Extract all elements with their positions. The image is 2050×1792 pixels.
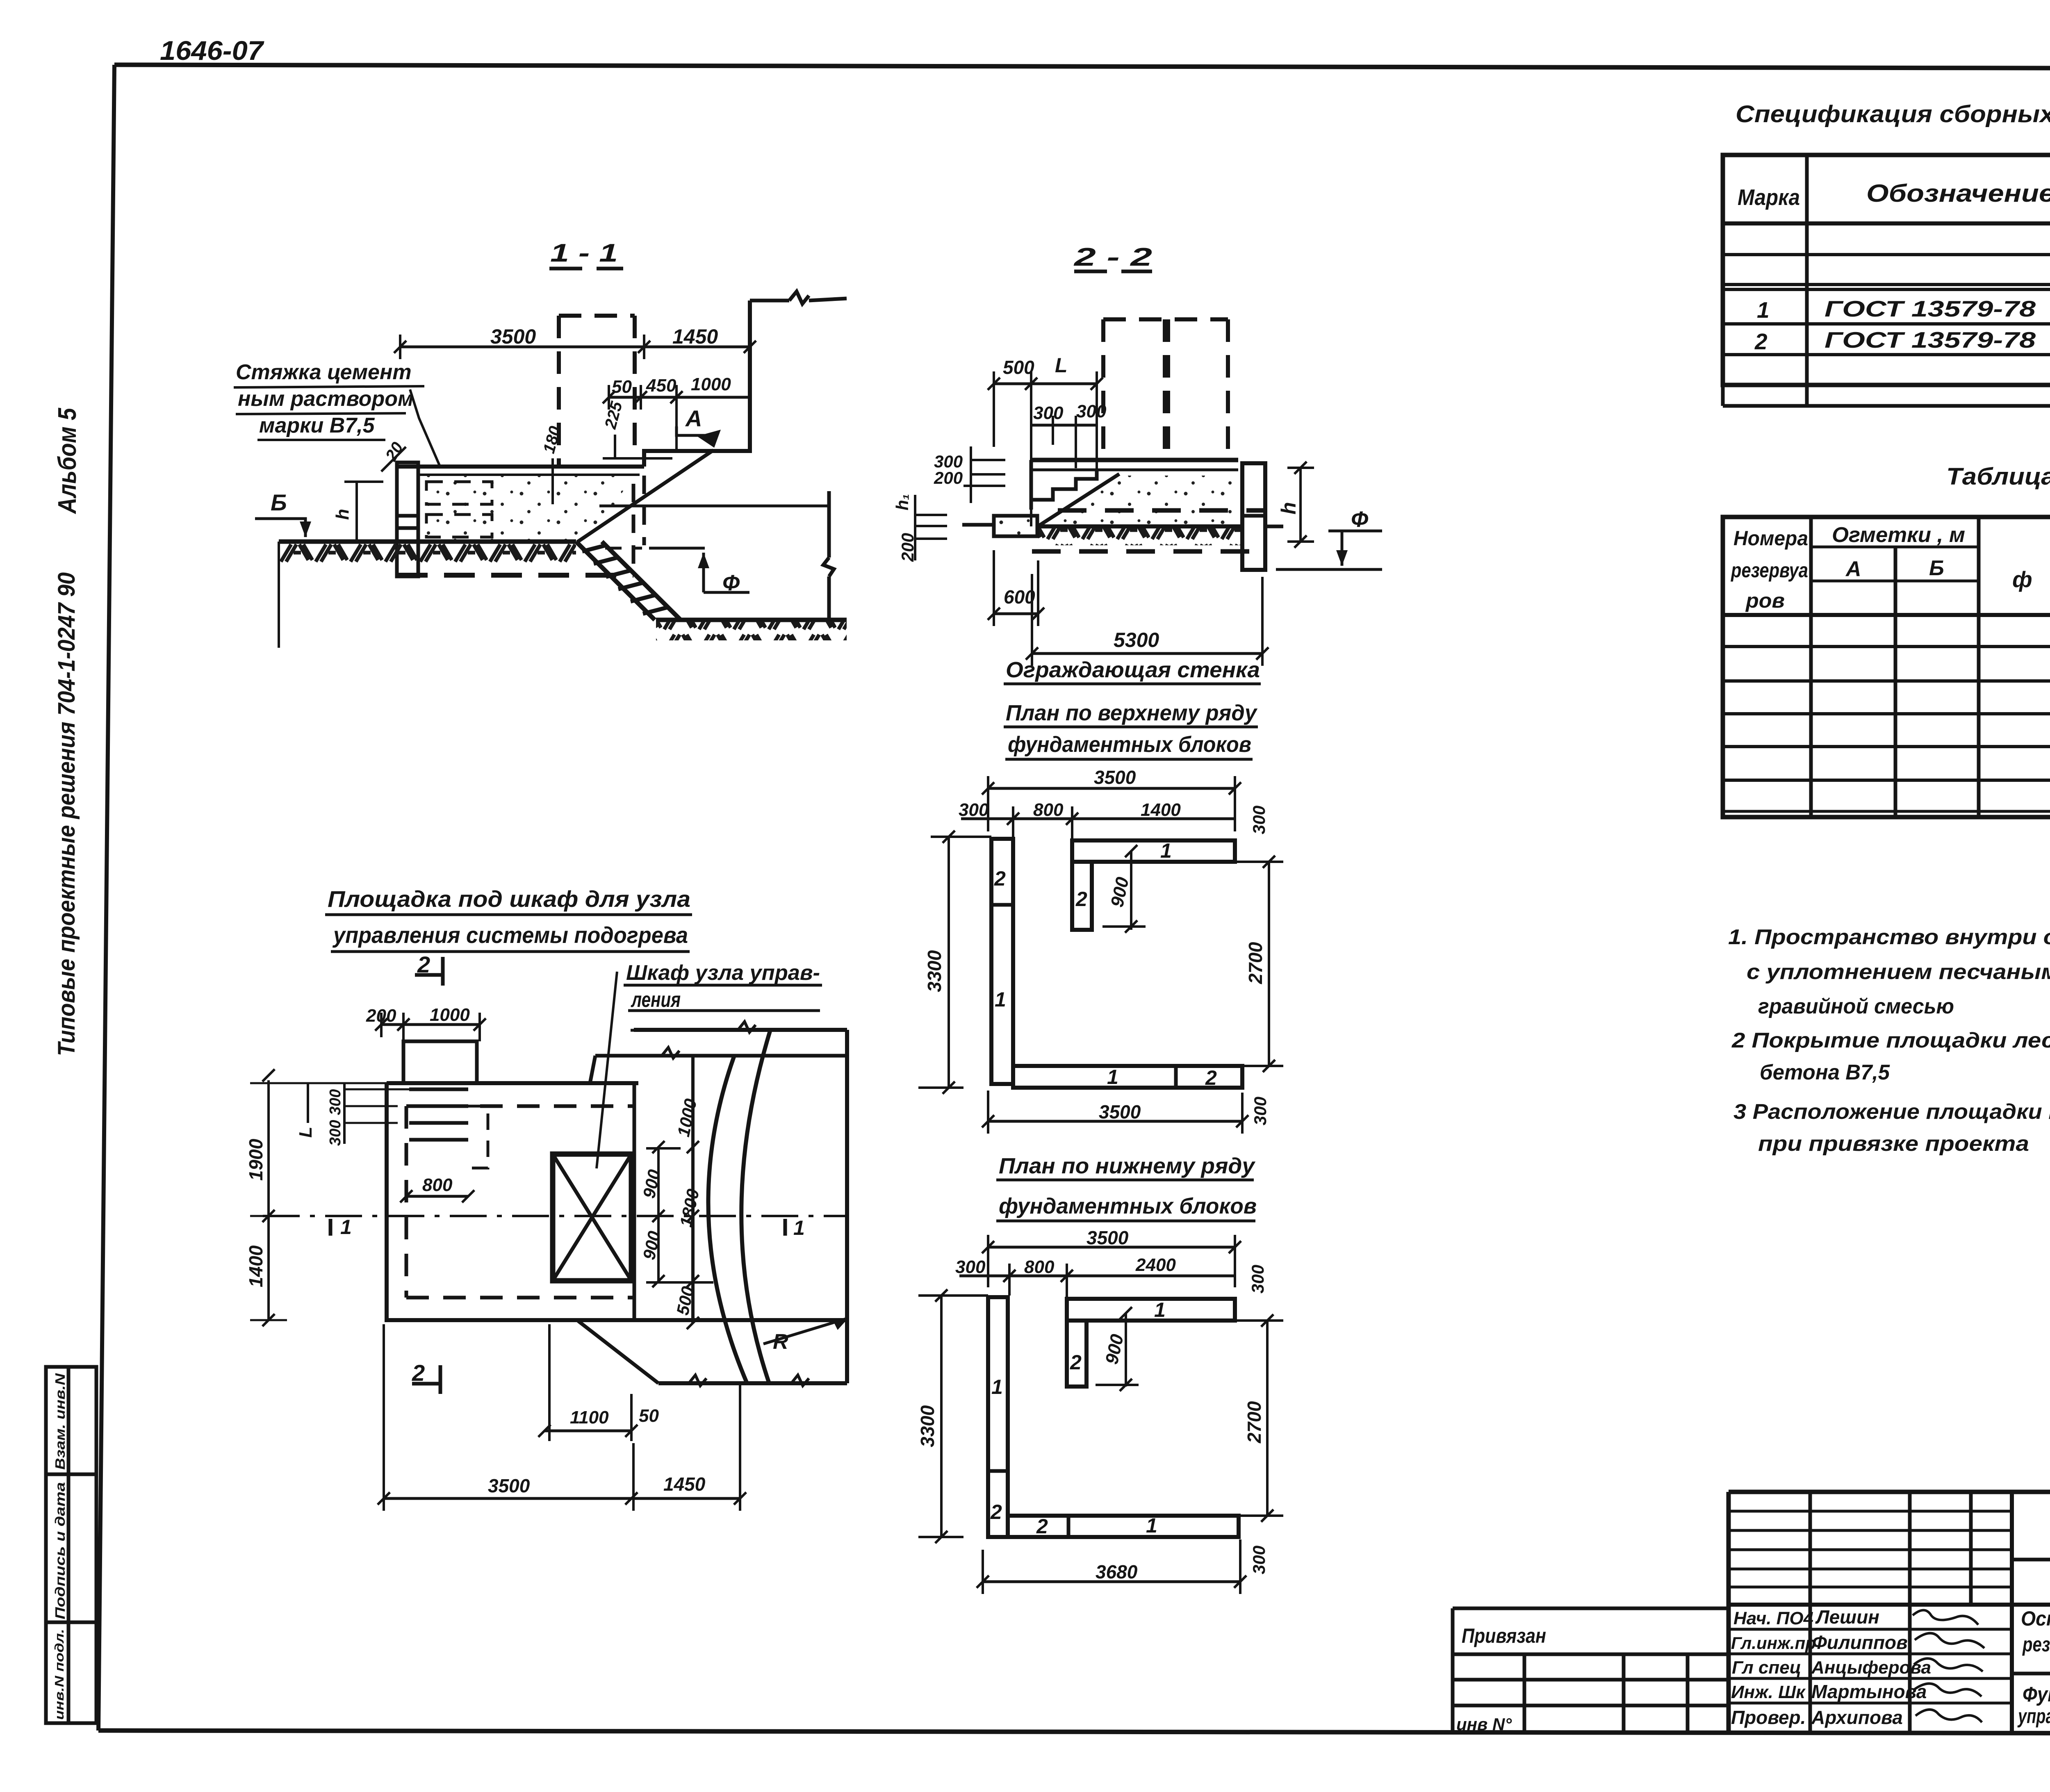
svg-text:1: 1 [1757, 297, 1770, 323]
s22 h dim right [1299, 468, 1302, 542]
svg-text:300: 300 [1033, 403, 1064, 423]
svg-text:Фундамент под шкаф узла: Фундамент под шкаф узла [2023, 1683, 2050, 1706]
svg-text:инв N°: инв N° [1456, 1715, 1512, 1734]
p subheader underline ogmetki [1811, 546, 1979, 549]
tb vertical sig grid [1809, 1492, 1812, 1734]
pu dim 2700 right [1268, 862, 1270, 1066]
title block outer [1729, 1490, 2050, 1494]
svg-text:2: 2 [990, 1501, 1002, 1523]
pu dim 900 [1130, 851, 1132, 930]
svg-text:1: 1 [1160, 839, 1172, 862]
p col A|B divider [1894, 547, 1897, 817]
svg-text:Номера: Номера [1733, 527, 1808, 550]
s22 right block divider [1242, 514, 1265, 518]
sec marker 1 left [329, 1219, 333, 1236]
svg-text:Альбом 5: Альбом 5 [53, 408, 82, 515]
svg-text:Типовые проектные решения 7: Типовые проектные решения 704-1-0247 90 [53, 572, 80, 1056]
svg-text:1 - 1: 1 - 1 [550, 239, 618, 267]
svg-text:бетона В7,5: бетона В7,5 [1760, 1061, 1890, 1084]
s11 leader to slab [410, 389, 441, 468]
svg-text:Взам. инв.N: Взам. инв.N [52, 1373, 68, 1470]
sec marker 1 right [784, 1219, 787, 1236]
s22 dashed mid line [1058, 508, 1264, 513]
svg-text:3500: 3500 [490, 325, 536, 348]
svg-text:2: 2 [994, 867, 1006, 890]
pu top block [1072, 840, 1235, 862]
s11 soil hatch left [279, 543, 576, 562]
svg-text:1000: 1000 [691, 374, 731, 394]
svg-text:2: 2 [1754, 329, 1768, 354]
tb row line [1729, 1586, 2012, 1589]
svg-text:300: 300 [955, 1257, 986, 1277]
svg-text:Площадка под шкаф для узла: Площадка под шкаф для узла [328, 886, 690, 912]
svg-text:1: 1 [991, 1375, 1003, 1398]
X diagonals [553, 1154, 631, 1281]
stamp strip boxes [46, 1367, 96, 1723]
svg-text:ГОСТ 13579-78: ГОСТ 13579-78 [1824, 327, 2036, 353]
svg-text:с уплотнением песчаным грунт: с уплотнением песчаным грунтом или песча… [1747, 960, 2050, 984]
svg-text:300: 300 [1076, 401, 1107, 421]
spec row lines [1723, 253, 2050, 256]
pad inner top line [595, 1054, 847, 1058]
svg-text:фундаментных блоков: фундаментных блоков [999, 1194, 1257, 1218]
s22 concrete stipple [1041, 476, 1238, 525]
privyazki outer box [1723, 517, 2050, 817]
svg-text:Мартынова: Мартынова [1811, 1681, 1927, 1702]
privyazan table [1453, 1608, 1729, 1733]
frame bottom line [98, 1731, 2050, 1734]
svg-text:3680: 3680 [1096, 1561, 1138, 1583]
s22 diagonal [1038, 474, 1119, 526]
svg-text:Подпись и дата: Подпись и дата [52, 1482, 68, 1619]
svg-text:1: 1 [1154, 1298, 1166, 1321]
tb line under TPR strip [2012, 1558, 2050, 1562]
s11 left wall block [397, 462, 418, 576]
spec table outer box [1723, 155, 2050, 385]
svg-text:1400: 1400 [1141, 800, 1181, 820]
pd dim 3300 left [940, 1296, 943, 1537]
s11 break line top [750, 291, 847, 304]
svg-text:ным раствором: ным раствором [238, 387, 413, 411]
svg-text:300: 300 [1248, 1265, 1267, 1293]
tb main mid line [1729, 1603, 2050, 1607]
svg-text:Ф: Ф [1351, 507, 1368, 532]
svg-text:800: 800 [1024, 1257, 1055, 1277]
svg-text:3500: 3500 [1099, 1101, 1141, 1123]
s11 dim line to F [599, 505, 829, 508]
svg-text:300: 300 [327, 1120, 344, 1146]
svg-text:Анцыферова: Анцыферова [1811, 1658, 1931, 1678]
centerline [263, 1215, 847, 1217]
svg-text:L: L [1055, 354, 1068, 377]
svg-text:3 Расположение площадки под: 3 Расположение площадки под шкаф определ… [1733, 1100, 2050, 1124]
svg-text:Основания и фундаменты: Основания и фундаменты [2021, 1607, 2050, 1630]
s11 concrete fill stipple [419, 476, 633, 540]
p subrow line under A B [1811, 580, 1979, 583]
break marks bottom edge [689, 1375, 809, 1386]
svg-text:300: 300 [1250, 1097, 1270, 1125]
svg-text:A: A [685, 405, 702, 431]
svg-text:50: 50 [612, 377, 632, 397]
s11 right boundary with break [823, 491, 834, 620]
platform left and bottom edges [387, 1083, 847, 1320]
s11 soil hatch lower [656, 622, 847, 640]
svg-text:Провер.: Провер. [1731, 1707, 1806, 1728]
svg-text:h: h [333, 509, 353, 520]
svg-text:Привязан: Привязан [1462, 1624, 1546, 1647]
s22 title underline [1074, 270, 1152, 273]
s11 top of screed [399, 465, 644, 469]
svg-text:1: 1 [1107, 1066, 1118, 1088]
pd dim 2700 right [1266, 1321, 1269, 1516]
svg-text:инв.N подл.: инв.N подл. [52, 1629, 66, 1720]
svg-text:План по нижнему ряду: План по нижнему ряду [999, 1154, 1256, 1178]
svg-text:Обозначение: Обозначение [1866, 180, 2050, 207]
s11 dim 3500 line [400, 346, 750, 348]
pd dim 900 [1125, 1313, 1127, 1387]
s11 dim 50 450 1000 line [609, 396, 750, 399]
curved band arc 2 [741, 1030, 770, 1383]
p header bottom [1723, 613, 2050, 617]
svg-text:200: 200 [934, 468, 963, 487]
svg-text:Б: Б [271, 490, 287, 515]
svg-text:при привязке проекта: при привязке проекта [1758, 1132, 2029, 1156]
frame top line [114, 65, 2050, 69]
svg-text:1000: 1000 [430, 1005, 470, 1025]
svg-text:1. Пространство внутри ограж: 1. Пространство внутри ограждающей стенк… [1728, 925, 2050, 949]
s22 slab second line [1031, 469, 1238, 471]
svg-text:800: 800 [1033, 800, 1064, 820]
svg-text:Стяжка цемент: Стяжка цемент [236, 360, 412, 384]
svg-text:500: 500 [1003, 357, 1034, 378]
s22 bottom dashed outline [1032, 549, 1264, 554]
pd left col block [988, 1297, 1008, 1537]
s11 slope from platform to toe [577, 450, 713, 542]
platform top edge [387, 1081, 638, 1085]
pd small block 2 [1067, 1321, 1086, 1387]
straight vertical between lines [691, 1056, 695, 1323]
tb sig rows [1729, 1628, 2012, 1631]
svg-text:3500: 3500 [488, 1475, 530, 1496]
p col nomera [1809, 517, 1813, 817]
break marks top edges [662, 1022, 756, 1058]
spec extra bottom strip [1723, 404, 2050, 408]
pad bottom left connector [578, 1321, 658, 1383]
svg-text:300: 300 [1249, 806, 1269, 834]
svg-text:резервуа: резервуа [1730, 559, 1808, 582]
svg-text:управления системы подогрева: управления системы подогрева [332, 922, 688, 948]
svg-text:марки В7,5: марки В7,5 [259, 414, 375, 437]
svg-text:ров: ров [1745, 589, 1785, 612]
svg-text:300: 300 [327, 1089, 344, 1115]
svg-text:1646-07: 1646-07 [160, 35, 264, 66]
s22 dashed tank outline [1103, 319, 1228, 460]
svg-text:План по верхнему ряду: План по верхнему ряду [1006, 701, 1258, 725]
spec header bottom [1723, 221, 2050, 225]
s11 dashed tank outline [559, 316, 635, 467]
svg-text:гравийной смесью: гравийной смесью [1758, 995, 1954, 1018]
p col B|f [1977, 517, 1981, 817]
svg-text:Б: Б [1929, 556, 1944, 580]
svg-text:1100: 1100 [570, 1407, 609, 1428]
svg-text:2: 2 [1036, 1515, 1048, 1538]
s22 left edge [1030, 460, 1033, 510]
pad top edge [634, 1028, 847, 1032]
s22 ground tick right [1265, 525, 1283, 528]
frame left line [98, 65, 114, 1731]
s22 ground line left of block [962, 523, 994, 527]
svg-text:300: 300 [1249, 1546, 1269, 1574]
pu left col block [991, 839, 1013, 1084]
ladder right dashed notch [468, 1106, 488, 1168]
svg-text:резервуара объемом 10тыс.м³: резервуара объемом 10тыс.м³ [2022, 1633, 2050, 1656]
svg-text:50: 50 [639, 1406, 659, 1426]
svg-text:5300: 5300 [1114, 628, 1159, 651]
s22 slab top [1031, 458, 1238, 462]
s22 soil hatch [1038, 528, 1242, 545]
svg-text:2: 2 [1070, 1351, 1082, 1374]
svg-text:Гл.инж.пр: Гл.инж.пр [1731, 1633, 1816, 1653]
s22 right block [1242, 463, 1265, 570]
svg-text:Спецификация сборных железоб: Спецификация сборных железобетонных элем… [1736, 101, 2050, 128]
curved band arc 1 [708, 1056, 747, 1383]
svg-text:1450: 1450 [672, 325, 718, 348]
right pad edge [845, 1030, 849, 1383]
svg-text:ф: ф [2012, 567, 2032, 592]
svg-text:R: R [773, 1330, 788, 1354]
s11 excavation slope hatched band [576, 542, 681, 620]
svg-text:800: 800 [422, 1175, 453, 1195]
s11 dashed bottom outline [397, 573, 633, 578]
pu dim 3300 left [948, 837, 950, 1088]
svg-text:2400: 2400 [1135, 1255, 1176, 1275]
svg-text:фундаментных блоков: фундаментных блоков [1008, 732, 1251, 757]
svg-text:1400: 1400 [245, 1245, 266, 1287]
top protrusion rect [403, 1041, 477, 1083]
svg-text:Инж. Шк: Инж. Шк [1731, 1682, 1806, 1702]
svg-text:3300: 3300 [924, 950, 945, 992]
s11 left extension vertical [278, 542, 280, 648]
svg-text:Таблица привязки: Таблица привязки [1946, 463, 2050, 490]
svg-text:300: 300 [959, 800, 989, 820]
svg-text:1450: 1450 [663, 1473, 706, 1495]
svg-text:L: L [296, 1127, 316, 1138]
svg-text:3500: 3500 [1094, 767, 1136, 788]
pd left col divider [988, 1469, 1008, 1473]
svg-text:Гл спец: Гл спец [1732, 1658, 1801, 1678]
svg-text:1900: 1900 [245, 1139, 266, 1181]
svg-text:2: 2 [1205, 1066, 1217, 1089]
pd bottom block row [1008, 1516, 1239, 1537]
pad bottom [658, 1381, 847, 1385]
s22 left small block [994, 516, 1037, 536]
pd top block [1067, 1299, 1235, 1321]
platform right edge solid [633, 1083, 636, 1320]
s11 dashed line under ground [605, 547, 642, 550]
svg-text:ления: ления [631, 988, 681, 1012]
svg-text:1: 1 [1146, 1514, 1157, 1537]
svg-text:h: h [1277, 502, 1300, 515]
svg-text:Марка: Марка [1738, 184, 1800, 210]
shkaf X box [553, 1154, 631, 1281]
signatures scribbles [1913, 1610, 1984, 1723]
s11 dashed buried blocks [426, 482, 492, 537]
svg-text:управлрния системы подогрева: управлрния системы подогрева. [2017, 1705, 2050, 1728]
pu bottom divider [1174, 1066, 1178, 1088]
svg-text:1: 1 [793, 1216, 805, 1239]
s11 platform step right [644, 451, 713, 467]
pu small block 2 [1072, 862, 1092, 930]
svg-text:А: А [1845, 557, 1861, 581]
svg-text:3300: 3300 [917, 1405, 938, 1447]
svg-text:Ограждающая стенка: Ограждающая стенка [1006, 658, 1260, 682]
s11 ground line left [279, 540, 576, 544]
svg-text:2 Покрытие площадки лестн: 2 Покрытие площадки лестницы выполнять и… [1731, 1029, 2050, 1052]
tb line above fund [2012, 1672, 2050, 1676]
s22 ground line [1038, 524, 1242, 528]
svg-text:2700: 2700 [1245, 942, 1266, 984]
ladder rungs [409, 1089, 468, 1140]
spec col line 1 [1805, 155, 1809, 406]
p data row lines [1723, 645, 2050, 648]
svg-text:ГОСТ 13579-78: ГОСТ 13579-78 [1824, 296, 2036, 321]
svg-text:450: 450 [646, 376, 676, 396]
s11 slope band hatch strokes [582, 545, 667, 614]
svg-text:600: 600 [1004, 586, 1035, 608]
s22 step profile [1031, 470, 1097, 500]
tb upper thin rows [1729, 1510, 2012, 1513]
shkaf leader [597, 972, 617, 1168]
svg-text:Огметки , м: Огметки , м [1832, 523, 1965, 547]
svg-text:3500: 3500 [1086, 1227, 1129, 1248]
svg-text:1: 1 [995, 988, 1006, 1011]
svg-text:2 - 2: 2 - 2 [1073, 243, 1152, 271]
svg-text:Шкаф узла управ-: Шкаф узла управ- [626, 961, 820, 985]
svg-text:Лешин: Лешин [1815, 1606, 1879, 1628]
s11 h dim left [355, 482, 358, 542]
s11 screed second line [419, 474, 640, 476]
dashed inner rect [406, 1106, 634, 1298]
pd bottom divider [1067, 1516, 1071, 1537]
s11 title underline [549, 267, 623, 271]
top connector [590, 1056, 595, 1083]
dim 1900 1400 left [267, 1080, 270, 1320]
pu bottom block row [1013, 1066, 1242, 1088]
s11 underground outline solid [649, 547, 705, 550]
s11 dashed verticals below tank [633, 476, 644, 574]
svg-text:h₁: h₁ [893, 494, 912, 510]
svg-text:2: 2 [1075, 888, 1087, 911]
pu left col divider [991, 903, 1013, 907]
svg-text:1: 1 [340, 1216, 352, 1239]
svg-text:Нач. ПО4: Нач. ПО4 [1733, 1608, 1813, 1628]
s11 upper platform edge [713, 301, 750, 451]
svg-text:2700: 2700 [1244, 1401, 1265, 1444]
svg-text:Архипова: Архипова [1811, 1707, 1903, 1728]
s11 lower ground line [656, 618, 847, 622]
svg-text:Филиппов: Филиппов [1812, 1632, 1908, 1653]
